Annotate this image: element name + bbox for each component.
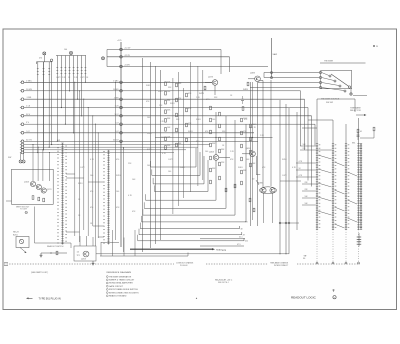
jog wires: [66, 173, 75, 175]
ladder top wire 1: [316, 128, 318, 144]
resistor R446: [165, 128, 167, 132]
wafer link 7: [335, 190, 345, 194]
svg-text:R451: R451: [78, 183, 83, 185]
svg-text:470: 470: [39, 58, 42, 60]
wafer link 4: [318, 197, 332, 201]
bus line .1 MS: [20, 98, 24, 101]
bundle wire 4: [20, 151, 24, 154]
tiny mark: [196, 298, 197, 299]
wire vertical f7: [97, 133, 99, 238]
svg-text:TRIGGER GENERATOR: TRIGGER GENERATOR: [109, 275, 132, 278]
comb wire R4: [69, 56, 71, 91]
wire vertical f5: [92, 116, 94, 226]
resistor R471: [241, 144, 243, 148]
ladder feed 2: [300, 149, 332, 151]
svg-text:R451: R451: [282, 159, 287, 161]
tick number labels col 4: [360, 144, 362, 227]
svg-text:10 MS: 10 MS: [113, 89, 119, 91]
tiny mark above: [333, 289, 335, 292]
svg-text:+100V: +100V: [124, 65, 131, 67]
trimmer symbol C160: [43, 52, 46, 55]
ground: [40, 253, 43, 257]
wafer link 2: [318, 169, 332, 173]
svg-text:470: 470: [205, 131, 208, 133]
wafer B labels left: [103, 151, 105, 244]
svg-text:01: 01: [360, 131, 362, 133]
svg-text:R463: R463: [196, 119, 201, 121]
Q453 loop wire: [255, 156, 257, 175]
resistor R448: [165, 146, 167, 150]
comb wire R8: [84, 56, 86, 83]
collector line row3: [258, 82, 320, 84]
resistor R406: [373, 127, 375, 131]
dashed tail col 1: [316, 230, 318, 263]
resistor R477: [250, 163, 252, 167]
neon box: [16, 237, 29, 248]
comb wire R2: [60, 56, 62, 108]
nested wire 11: [138, 240, 244, 242]
terminal col 2: [332, 262, 334, 264]
rail to switch row1: [264, 72, 320, 74]
wafer link 5: [318, 211, 332, 215]
resistor R463: [210, 168, 212, 172]
wire vertical f3: [83, 99, 85, 230]
wafer link 8: [335, 207, 345, 211]
resistor R475: [250, 137, 252, 141]
resistor R478: [242, 107, 244, 111]
collector line row4: [250, 87, 320, 89]
connector J5: [120, 115, 123, 118]
tiny mark: [373, 45, 375, 47]
resistor R458: [210, 106, 212, 110]
tick number labels col 1: [319, 144, 321, 227]
ground: [92, 261, 95, 265]
resistor R445: [165, 119, 167, 123]
resistor R474: [204, 86, 206, 90]
resistor R492: [219, 176, 221, 180]
resistor R453: [176, 143, 178, 147]
svg-text:INTERCONNECT: INTERCONNECT: [274, 265, 289, 267]
resistor R465: [219, 124, 221, 128]
svg-text:50 mV: 50 mV: [113, 139, 119, 141]
dashed tail col 3: [345, 230, 347, 263]
svg-text:SWEEP & TIMING CIRCUIT: SWEEP & TIMING CIRCUIT: [109, 280, 135, 282]
wire y181: [280, 180, 301, 182]
vertical x286: [285, 104, 287, 254]
svg-text:TP1: TP1: [77, 255, 80, 257]
svg-text:REFERENCE DIAGRAMS: REFERENCE DIAGRAMS: [107, 271, 132, 274]
vertical x271: [270, 80, 272, 186]
connector J6: [120, 123, 123, 126]
switch contact 1: [319, 71, 321, 73]
ladder feed 7: [302, 190, 316, 192]
vertical drops: [100, 242, 102, 256]
resistor R473: [241, 170, 243, 174]
resistor R460: [210, 130, 212, 134]
wire Q483 to mv: [262, 81, 264, 188]
wire y256: [100, 255, 188, 257]
svg-text:INTERCONNECTING SOCKETS: INTERCONNECTING SOCKETS: [109, 292, 139, 294]
resistor R175: [43, 198, 45, 202]
wire y242: [101, 242, 119, 244]
switch contact 3: [319, 81, 321, 83]
resistor R467: [219, 149, 221, 153]
readout heavy wire: [130, 248, 212, 250]
switch contact 2: [319, 76, 321, 78]
switch wafer col 4b: [360, 144, 362, 230]
mv loop: [259, 187, 276, 194]
wafer link 12: [335, 224, 345, 228]
switch wafer SW1 col B: [107, 150, 109, 245]
ladder feed 8: [302, 197, 316, 199]
svg-text:100: 100: [168, 171, 171, 173]
ladder feed 6: [302, 183, 316, 185]
wire vertical f9: [123, 148, 125, 252]
tick number labels col 2: [335, 144, 337, 227]
ladder feed 4: [296, 169, 316, 171]
comb wire R1: [56, 56, 58, 142]
resistor R441: [165, 82, 167, 86]
capacitor C472: [241, 98, 244, 100]
resistor R447: [165, 137, 167, 141]
wire vertical: [150, 62, 152, 248]
svg-text:50 mV: 50 mV: [26, 139, 32, 141]
bottom wire run: [41, 252, 67, 254]
vertical x183.5: [183, 88, 185, 198]
bundle wire 1: [20, 143, 24, 146]
transistor Q493: [261, 188, 266, 193]
wafer link 1: [318, 155, 332, 159]
amp to pot wire: [34, 207, 36, 244]
arrow right: [356, 114, 364, 116]
resistor R469: [241, 118, 243, 122]
bus line 50 V: [20, 114, 24, 117]
svg-text:NE-23: NE-23: [13, 232, 20, 234]
wire vertical f1: [74, 82, 76, 236]
svg-text:TIME-BASE CHASSIS: TIME-BASE CHASSIS: [270, 262, 289, 265]
svg-text:48: 48: [241, 228, 243, 230]
nested wire 10: [139, 234, 242, 236]
vertical x257.5: [257, 95, 259, 226]
svg-text:R463: R463: [188, 131, 193, 133]
wire top: [320, 62, 366, 64]
svg-text:100: 100: [90, 175, 93, 177]
wire vertical f6: [94, 124, 96, 246]
resistor R484: [247, 82, 249, 86]
svg-text:CONSOLE CHASSIS: CONSOLE CHASSIS: [176, 262, 194, 265]
connector J1: [120, 81, 123, 84]
rail to switch row2: [264, 77, 320, 79]
legend item 4: [106, 285, 108, 287]
svg-text:SEE NOTE 4: SEE NOTE 4: [218, 282, 229, 284]
svg-text:410: 410: [245, 241, 248, 243]
bundle wire 3: [20, 148, 24, 151]
terminal col 1: [316, 262, 318, 264]
wires right of center: [200, 238, 245, 240]
resistor R442: [165, 91, 167, 95]
resistor R495: [241, 181, 243, 185]
transistor Q473: [212, 80, 218, 86]
ladder top wire 2: [332, 120, 334, 144]
comb wire L1: [37, 62, 39, 153]
vertical x190.6: [190, 62, 192, 192]
switch wafer SW1 col A: [61, 143, 63, 245]
svg-text:SW 402: SW 402: [326, 102, 334, 104]
bus line 10 MS: [20, 89, 24, 92]
graticule lamp B168: [22, 160, 25, 163]
svg-text:C472: C472: [168, 159, 173, 161]
svg-text:GATE CIRCUIT: GATE CIRCUIT: [109, 285, 124, 288]
transistor Q173: [41, 188, 46, 193]
switch contact 4: [319, 86, 321, 88]
wire stub: [353, 95, 367, 97]
legend item 1: [106, 276, 108, 278]
svg-text:TYPE 561 PLUG-IN: TYPE 561 PLUG-IN: [39, 297, 61, 300]
wafer link 10: [348, 200, 358, 204]
resistor R405: [357, 129, 359, 133]
vertical x289: [288, 108, 290, 254]
resistor R462: [210, 156, 212, 160]
svg-text:R451: R451: [147, 133, 152, 135]
long wire y253.8: [96, 253, 289, 255]
svg-text:SW: SW: [8, 157, 11, 159]
resistor R461: [210, 143, 212, 147]
amplifier box: [12, 169, 54, 204]
transistor Q203: [83, 251, 89, 257]
resistor R451: [176, 113, 178, 117]
wire between: [155, 137, 273, 139]
svg-text:R451: R451: [158, 91, 163, 93]
svg-text:100: 100: [64, 49, 67, 51]
connector J3: [120, 98, 123, 101]
nested wire 3: [153, 183, 204, 185]
svg-text:SW: SW: [57, 140, 60, 142]
bus line 5 V: [20, 123, 24, 126]
wafer link 6: [335, 162, 345, 166]
transistor Q463: [213, 155, 219, 161]
resistor R457: [186, 138, 188, 142]
svg-text:READOUT LOGIC: READOUT LOGIC: [291, 296, 317, 300]
nested wire 6: [144, 207, 226, 209]
connector J4: [120, 106, 123, 109]
mv emitter wires: [263, 193, 265, 223]
resistor R452: [176, 128, 178, 132]
nested wire 1: [151, 166, 197, 168]
nested wire 2: [152, 174, 200, 176]
svg-text:47.5: 47.5: [237, 244, 241, 246]
svg-text:49: 49: [243, 235, 245, 237]
nested wire 4: [154, 190, 208, 192]
switch wafer col 3: [345, 144, 347, 230]
wire with junction circle: [50, 59, 52, 61]
svg-text:(SEE PARTS LIST): (SEE PARTS LIST): [31, 271, 48, 274]
resistor R476: [250, 150, 252, 154]
nested wire 9: [140, 228, 239, 230]
wire vertical f8: [115, 82, 117, 240]
svg-text:SB-2021 AT +25 C: SB-2021 AT +25 C: [215, 279, 233, 282]
svg-text:.1 MS: .1 MS: [26, 97, 32, 99]
resistor R454: [186, 93, 188, 97]
trimmer symbol C161: [70, 51, 73, 54]
svg-text:1 uS: 1 uS: [26, 106, 31, 108]
resistor R443: [165, 100, 167, 104]
vertical x172.9: [172, 78, 174, 214]
vertical x280: [279, 100, 281, 254]
svg-text:50 V: 50 V: [26, 114, 31, 116]
pot dashed box: [74, 246, 96, 261]
svg-text:470: 470: [116, 159, 119, 161]
rail +12V: [107, 49, 221, 51]
resistor R470: [241, 131, 243, 135]
circled mark: [333, 296, 336, 299]
wire vertical f4: [87, 108, 89, 237]
vertical x250.5: [250, 82, 252, 226]
transistor Q453: [250, 151, 256, 157]
comb wire L2: [43, 62, 45, 150]
legend item 6: [106, 292, 108, 294]
vertical x297: [296, 112, 298, 230]
graticule lamp B167: [19, 160, 22, 163]
vertical x202.8: [202, 70, 204, 180]
nested wire 5: [146, 199, 217, 201]
resistor R466: [219, 137, 221, 141]
svg-text:1 SEC: 1 SEC: [113, 80, 119, 82]
resistor R494: [234, 184, 236, 188]
box feed wires: [32, 145, 34, 182]
wiper wire: [350, 89, 352, 93]
wire to selector: [316, 99, 318, 128]
wire vertical: [142, 58, 144, 252]
svg-text:+12.2V: +12.2V: [124, 48, 131, 50]
svg-text:R463: R463: [180, 167, 185, 169]
svg-text:SAW: SAW: [273, 53, 278, 56]
svg-text:R451: R451: [147, 149, 152, 151]
svg-text:SELECTOR: SELECTOR: [350, 110, 361, 112]
comb wire R5: [73, 56, 75, 133]
ladder feed 1: [300, 145, 316, 147]
legend item 5: [106, 289, 108, 291]
turn-down wires right: [300, 91, 302, 146]
switch wafer col 4: [357, 144, 359, 230]
resistor R166: [38, 197, 40, 201]
svg-text:470: 470: [90, 191, 93, 193]
arrow diagonal: [20, 248, 26, 253]
svg-text:PLUG-IN: PLUG-IN: [180, 265, 188, 267]
switch box outline: [321, 71, 352, 89]
svg-text:470: 470: [90, 207, 93, 209]
svg-text:READOUT SWITCH: READOUT SWITCH: [47, 245, 64, 248]
svg-text:C472: C472: [56, 77, 61, 79]
dashed tail col 2: [332, 230, 334, 263]
tick number labels col 3: [348, 144, 350, 227]
resistor R444: [165, 110, 167, 114]
wafer A labels right: [65, 146, 67, 242]
ladder feed 3: [296, 162, 316, 164]
svg-text:100: 100: [116, 191, 119, 193]
svg-text:R451: R451: [170, 103, 175, 105]
wafer link 3: [318, 183, 332, 187]
scattered component value labels: [56, 77, 297, 225]
svg-text:C472: C472: [282, 175, 287, 177]
resistor R497: [253, 208, 255, 212]
ladder top wire 3: [345, 124, 347, 144]
comb bracket A: [56, 55, 86, 57]
svg-text:"3B": "3B": [303, 256, 307, 258]
resistor R202: [56, 251, 58, 255]
+100V vertical: [271, 38, 273, 78]
switch arm: [331, 74, 349, 87]
svg-text:o o o: o o o: [222, 250, 226, 252]
comb wire R6: [77, 56, 79, 100]
legend item 3: [106, 282, 108, 284]
svg-text:-12.2V: -12.2V: [124, 55, 131, 57]
bundle wire 2: [20, 146, 24, 149]
svg-text:R463: R463: [146, 85, 151, 87]
vertical x252.5: [252, 82, 254, 220]
resistor R450: [176, 98, 178, 102]
resistor R464: [219, 112, 221, 116]
resistor R456: [186, 123, 188, 127]
wire vertical f2: [79, 91, 81, 242]
svg-text:W: W: [376, 46, 378, 48]
comb wire R7: [81, 56, 83, 116]
edge symbol: [4, 262, 8, 264]
bus line 1 SEC: [20, 81, 24, 84]
resistor R459: [210, 118, 212, 122]
vertical x178.4: [177, 72, 179, 206]
connector J2: [120, 90, 123, 93]
comb bracket B: [37, 61, 53, 63]
terminal col 4: [358, 262, 360, 264]
svg-text:HORIZONTAL AMPLIFIER: HORIZONTAL AMPLIFIER: [109, 282, 133, 285]
wire out of box: [6, 200, 12, 202]
resistor R474: [250, 124, 252, 128]
wire y223 with junctions: [279, 222, 299, 224]
transistor Q483: [255, 76, 261, 82]
resistor R493: [225, 188, 227, 192]
wafer link 11: [348, 218, 358, 222]
bus line 1 uS: [20, 106, 24, 109]
legend item 7: [106, 295, 108, 297]
svg-text:100: 100: [147, 165, 150, 167]
svg-text:1 SEC: 1 SEC: [26, 80, 32, 82]
comb wire R3: [64, 56, 66, 125]
resistor R449: [176, 83, 178, 87]
svg-text:C472: C472: [80, 77, 85, 79]
resistor R455: [186, 108, 188, 112]
svg-text:10 MS: 10 MS: [26, 89, 32, 91]
svg-text:SEL: SEL: [352, 143, 355, 145]
svg-text:TO CRT: TO CRT: [20, 209, 28, 211]
ladder top wire 4: [358, 118, 360, 144]
legend item 2: [106, 279, 108, 281]
resistor R472: [241, 157, 243, 161]
wire vertical: [154, 66, 156, 244]
connector stack symbol: [357, 236, 362, 238]
interface dashed line: [4, 263, 174, 265]
transistor Q494: [270, 188, 275, 193]
bus line .5 V: [20, 131, 24, 134]
resistor R468: [219, 162, 221, 166]
rail -12V: [107, 56, 230, 58]
svg-text:FRONT PANEL MODE SWITCH: FRONT PANEL MODE SWITCH: [109, 288, 138, 291]
terminal col 3: [345, 262, 347, 264]
svg-text:C472: C472: [80, 167, 85, 169]
wafer link 9: [348, 172, 358, 176]
ladder feed 9: [302, 204, 316, 206]
wires into dashed box: [79, 236, 81, 246]
circled X mark: [25, 211, 27, 213]
